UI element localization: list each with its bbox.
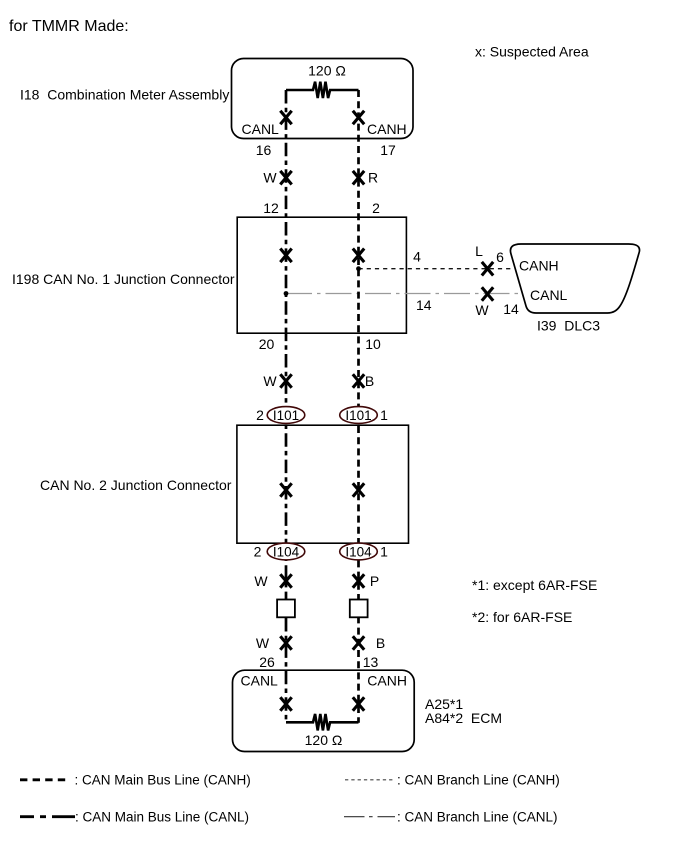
svg-text:CANL: CANL bbox=[530, 287, 568, 303]
svg-text:CANL: CANL bbox=[242, 121, 280, 137]
node junction dot CANH branch bbox=[356, 266, 361, 271]
suspect mark X junction1 CANL bbox=[280, 249, 291, 263]
svg-text:: CAN Branch Line (CANH): : CAN Branch Line (CANH) bbox=[397, 773, 560, 788]
connector square left bbox=[277, 600, 295, 618]
svg-text:I104: I104 bbox=[273, 544, 300, 559]
suspect mark X wire W row4 bbox=[280, 636, 291, 650]
suspect mark X wire W row3 bbox=[280, 574, 291, 588]
suspect mark X wire R row1 bbox=[353, 171, 364, 185]
wire CAN branch line CANH to DLC3 (thin dashed) bbox=[359, 268, 515, 270]
wire CAN branch line CANL to DLC3 (thin dash-dot grey) bbox=[286, 293, 521, 295]
svg-text:I101: I101 bbox=[345, 408, 371, 423]
svg-text:CAN No. 2 Junction Connector: CAN No. 2 Junction Connector bbox=[40, 477, 232, 493]
svg-text:14: 14 bbox=[503, 301, 519, 317]
box CAN No. 2 Junction Connector bbox=[237, 425, 409, 543]
svg-text:CANH: CANH bbox=[367, 121, 407, 137]
connector oval I101 right bbox=[340, 407, 378, 424]
svg-text:B: B bbox=[376, 635, 385, 651]
svg-text:1: 1 bbox=[380, 544, 388, 560]
svg-text:for TMMR Made:: for TMMR Made: bbox=[9, 18, 129, 35]
suspect mark X DLC3 CANL branch bbox=[482, 287, 493, 301]
suspect mark X junction2 CANH bbox=[353, 483, 364, 497]
suspect mark X wire B row2 bbox=[353, 374, 364, 388]
svg-text:CANH: CANH bbox=[519, 258, 559, 274]
wire CAN main bus CANH (right vertical, thick dashed) bbox=[357, 90, 360, 723]
legend sample CAN main bus CANL bbox=[20, 815, 75, 818]
svg-text:120 Ω: 120 Ω bbox=[308, 62, 346, 78]
svg-text:I18 Combination Meter Assembl: I18 Combination Meter Assembly bbox=[20, 87, 229, 103]
svg-text:I104: I104 bbox=[345, 544, 372, 559]
suspect mark X meter CANH bbox=[353, 111, 364, 125]
suspect mark X wire W row2 bbox=[280, 374, 291, 388]
node junction dot CANL branch bbox=[284, 291, 289, 296]
suspect mark X wire P row3 bbox=[353, 574, 364, 588]
svg-text:R: R bbox=[368, 170, 378, 186]
suspect mark X wire B row4 bbox=[353, 636, 364, 650]
legend sample CAN main bus CANH bbox=[20, 778, 66, 781]
suspect mark X DLC3 CANH branch bbox=[482, 262, 493, 276]
svg-text:2: 2 bbox=[256, 407, 264, 423]
svg-text:W: W bbox=[475, 302, 489, 318]
suspect mark X ECM CANL bbox=[280, 697, 291, 711]
connector square right bbox=[350, 600, 368, 618]
wire CAN main bus CANL (left vertical, thick dash-dot) bbox=[285, 90, 288, 723]
svg-text:CANL: CANL bbox=[241, 672, 279, 688]
svg-text:4: 4 bbox=[413, 248, 421, 264]
suspect mark X junction2 CANL bbox=[280, 483, 291, 497]
svg-text:2: 2 bbox=[254, 544, 262, 560]
box I18 Combination Meter Assembly bbox=[232, 59, 414, 139]
svg-text:17: 17 bbox=[380, 142, 396, 158]
svg-text:2: 2 bbox=[372, 200, 380, 216]
svg-text:B: B bbox=[365, 373, 374, 389]
svg-text:L: L bbox=[475, 243, 483, 259]
connector oval I104 right bbox=[340, 543, 378, 560]
resistor 120 ohm in combination meter bbox=[286, 82, 359, 98]
svg-text:: CAN Main Bus Line (CANH): : CAN Main Bus Line (CANH) bbox=[75, 773, 251, 788]
svg-text:W: W bbox=[263, 170, 277, 186]
box ECM bbox=[233, 670, 415, 751]
svg-text:20: 20 bbox=[259, 336, 275, 352]
svg-text:14: 14 bbox=[416, 297, 432, 313]
connector oval I101 left bbox=[267, 407, 305, 424]
legend sample CAN branch CANH bbox=[345, 779, 393, 781]
svg-text:I39 DLC3: I39 DLC3 bbox=[537, 318, 600, 334]
svg-text:26: 26 bbox=[259, 654, 275, 670]
svg-text:A84*2 ECM: A84*2 ECM bbox=[425, 710, 502, 726]
svg-text:13: 13 bbox=[363, 654, 379, 670]
box I198 CAN No. 1 Junction Connector bbox=[237, 217, 406, 333]
svg-text:P: P bbox=[370, 573, 379, 589]
svg-text:12: 12 bbox=[263, 200, 279, 216]
legend sample CAN branch CANL bbox=[344, 816, 395, 818]
svg-text:1: 1 bbox=[380, 407, 388, 423]
svg-text:*2: for 6AR-FSE: *2: for 6AR-FSE bbox=[472, 609, 572, 625]
svg-text:: CAN Main Bus Line (CANL): : CAN Main Bus Line (CANL) bbox=[75, 810, 249, 825]
svg-text:x: Suspected Area: x: Suspected Area bbox=[475, 44, 589, 60]
svg-text:CANH: CANH bbox=[367, 672, 407, 688]
resistor 120 ohm in ECM bbox=[286, 714, 359, 730]
svg-text:: CAN Branch Line (CANL): : CAN Branch Line (CANL) bbox=[397, 810, 558, 825]
suspect mark X meter CANL bbox=[280, 111, 291, 125]
svg-text:W: W bbox=[263, 373, 277, 389]
svg-text:I101: I101 bbox=[273, 408, 299, 423]
svg-text:16: 16 bbox=[256, 142, 272, 158]
suspect mark X wire W row1 bbox=[280, 171, 291, 185]
svg-text:I198 CAN No. 1 Junction Connec: I198 CAN No. 1 Junction Connector bbox=[12, 271, 235, 287]
connector DLC3 I39 body bbox=[510, 244, 639, 313]
suspect mark X junction1 CANH bbox=[353, 249, 364, 263]
svg-text:120 Ω: 120 Ω bbox=[305, 732, 343, 748]
svg-text:W: W bbox=[256, 635, 270, 651]
svg-text:*1: except 6AR-FSE: *1: except 6AR-FSE bbox=[472, 577, 597, 593]
connector oval I104 left bbox=[267, 543, 305, 560]
svg-text:10: 10 bbox=[365, 336, 381, 352]
suspect mark X ECM CANH bbox=[353, 697, 364, 711]
svg-text:6: 6 bbox=[496, 249, 504, 265]
svg-text:W: W bbox=[254, 573, 268, 589]
